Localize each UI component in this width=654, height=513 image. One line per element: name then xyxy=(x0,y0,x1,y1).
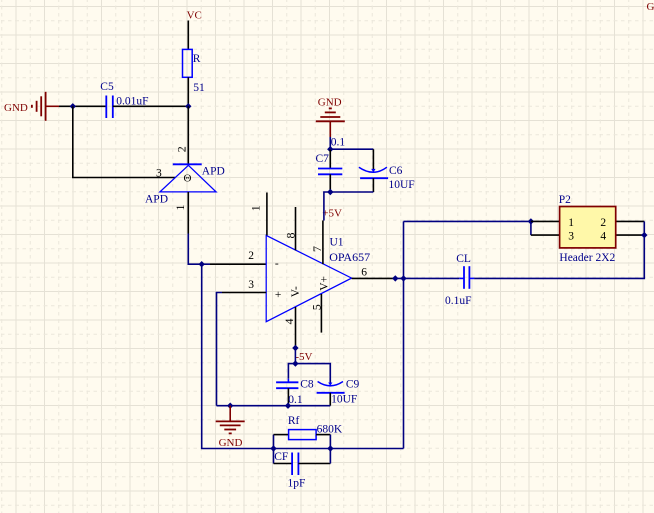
svg-text:P2: P2 xyxy=(559,194,571,206)
wire feedback left leg xyxy=(202,264,404,448)
svg-text:1: 1 xyxy=(568,217,574,229)
capacitor C7 xyxy=(318,149,342,192)
wire +5V to pin 7 xyxy=(324,192,330,221)
junction P2 pins 1-3 xyxy=(528,218,534,224)
svg-text:3: 3 xyxy=(156,168,162,180)
svg-text:GND: GND xyxy=(219,437,243,449)
svg-text:Θ: Θ xyxy=(184,173,192,185)
resistor Rf xyxy=(274,430,331,449)
ground GND bottom xyxy=(216,406,245,449)
resistor R xyxy=(183,49,193,77)
value 1pF xyxy=(288,477,306,489)
capacitor CF xyxy=(274,449,331,476)
pin 2 label U1 xyxy=(248,250,254,262)
svg-text:C5: C5 xyxy=(100,81,114,93)
pin 1 label APD xyxy=(173,205,187,211)
wire P2 pin2 to pin4 tie xyxy=(643,221,645,235)
power port +5V xyxy=(322,208,342,220)
label C9 xyxy=(346,379,360,391)
svg-text:Rf: Rf xyxy=(288,415,300,427)
svg-text:0.1uF: 0.1uF xyxy=(445,295,472,307)
capacitor C5 xyxy=(106,96,113,119)
svg-text:G: G xyxy=(647,1,654,13)
junction node B xyxy=(185,103,191,109)
svg-text:R: R xyxy=(193,53,201,65)
photodiode APD xyxy=(160,164,216,192)
svg-text:U1: U1 xyxy=(330,236,344,248)
svg-text:V-: V- xyxy=(290,286,302,297)
label Rf xyxy=(288,415,300,427)
svg-text:Header 2X2: Header 2X2 xyxy=(559,252,615,264)
power port VC xyxy=(187,9,202,21)
junction Rf left xyxy=(270,445,276,451)
value 0.1uF (CL) xyxy=(445,295,472,307)
capacitor CL xyxy=(459,266,474,289)
svg-text:+5V: +5V xyxy=(322,208,342,220)
wire output to CL xyxy=(395,277,459,279)
wire P2 pin1 to pin3 tie xyxy=(530,221,532,235)
junction Rf right xyxy=(327,445,333,451)
svg-text:6: 6 xyxy=(361,267,367,279)
label C6 xyxy=(389,165,403,177)
pin 2 label APD xyxy=(174,146,188,152)
power port G top right xyxy=(647,1,654,13)
svg-text:680K: 680K xyxy=(317,423,343,435)
svg-text:7: 7 xyxy=(310,246,324,252)
svg-text:2: 2 xyxy=(248,250,254,262)
wire GND to +5V rail xyxy=(329,137,331,149)
wire C5 to node B xyxy=(113,105,189,107)
svg-text:OPA657: OPA657 xyxy=(329,250,370,264)
label OPA657 xyxy=(329,250,370,264)
wire APD anode down xyxy=(187,192,189,234)
junction node A xyxy=(70,103,76,109)
label CL xyxy=(456,253,471,265)
junction feedback tap xyxy=(199,261,205,267)
svg-text:APD: APD xyxy=(145,193,168,205)
svg-text:-: - xyxy=(275,258,279,270)
svg-text:10UF: 10UF xyxy=(389,179,415,191)
svg-text:3: 3 xyxy=(248,279,254,291)
svg-text:10UF: 10UF xyxy=(331,393,357,405)
wire C6 bottom rail xyxy=(330,191,373,193)
ground GND left xyxy=(4,92,59,121)
label APD left xyxy=(145,193,168,205)
svg-text:C7: C7 xyxy=(316,153,330,165)
svg-text:0.1: 0.1 xyxy=(331,136,346,148)
svg-text:1: 1 xyxy=(173,205,187,211)
pin 3 label APD xyxy=(156,168,162,180)
svg-text:1pF: 1pF xyxy=(288,477,306,489)
wire node A to APD pin 3 xyxy=(73,106,175,177)
svg-text:VC: VC xyxy=(187,9,202,21)
junction +5V rail xyxy=(327,189,333,195)
power port -5V xyxy=(292,345,312,363)
svg-text:2: 2 xyxy=(600,217,606,229)
svg-text:0.1: 0.1 xyxy=(288,394,303,406)
junction P2 pins 2-4 xyxy=(641,232,647,238)
wire R to node B xyxy=(187,77,189,106)
junction output 2 xyxy=(400,275,406,281)
svg-text:CL: CL xyxy=(456,253,471,265)
svg-text:C6: C6 xyxy=(389,165,403,177)
value 10UF (C6) xyxy=(389,179,415,191)
junction C7 top xyxy=(327,146,333,152)
junction bypass top xyxy=(292,360,298,366)
label P2 xyxy=(559,194,571,206)
pin 3 label U1 xyxy=(248,279,254,291)
svg-text:C8: C8 xyxy=(300,379,314,391)
svg-text:51: 51 xyxy=(193,82,205,94)
label C7 xyxy=(316,153,330,165)
wire output vertical to feedback xyxy=(403,221,405,448)
svg-text:CF: CF xyxy=(274,451,288,463)
svg-text:3: 3 xyxy=(568,230,574,242)
ground GND top xyxy=(316,97,345,138)
svg-text:4: 4 xyxy=(282,319,296,325)
wire GND to node A xyxy=(59,105,106,107)
svg-text:C9: C9 xyxy=(346,379,360,391)
wire rail to C6 xyxy=(330,148,373,150)
label U1 xyxy=(330,236,344,248)
svg-text:1: 1 xyxy=(248,205,262,211)
svg-text:GND: GND xyxy=(318,97,342,109)
value 680K xyxy=(317,423,343,435)
svg-text:V+: V+ xyxy=(318,276,330,291)
pin 2 lead U1 xyxy=(210,263,266,265)
wire node B to APD cathode xyxy=(187,106,189,164)
capacitor C8 xyxy=(276,379,298,406)
label R xyxy=(193,53,201,65)
svg-text:+: + xyxy=(275,289,282,301)
value 0.01uF xyxy=(116,95,148,107)
pin 1 U1 xyxy=(248,193,267,236)
svg-text:APD: APD xyxy=(202,166,225,178)
label C8 xyxy=(300,379,314,391)
label CF xyxy=(274,451,288,463)
wire bypass bottom rail xyxy=(217,405,331,407)
wire output node to P2 left xyxy=(404,220,531,222)
label Header 2X2 xyxy=(559,252,615,264)
svg-text:8: 8 xyxy=(283,233,297,239)
label C5 xyxy=(100,81,114,93)
op-amp U1 xyxy=(266,235,351,321)
svg-text:2: 2 xyxy=(174,146,188,152)
wire VC to R xyxy=(187,21,189,50)
svg-text:5: 5 xyxy=(309,304,323,310)
pin 6 U1 output xyxy=(352,267,396,279)
junction C8 bottom xyxy=(285,403,291,409)
capacitor C9 polarized xyxy=(317,382,345,406)
pin 4 U1 xyxy=(282,307,296,348)
wire -5V to bypass rail xyxy=(294,348,296,364)
junction ground tap xyxy=(227,403,233,409)
label APD right xyxy=(202,166,225,178)
value 51 xyxy=(193,82,205,94)
connector P2 Header 2X2 xyxy=(531,207,644,248)
value 0.1 (C7) xyxy=(331,136,346,148)
pin 7 U1 xyxy=(310,221,324,265)
svg-text:4: 4 xyxy=(600,230,606,242)
value 10UF (C9) xyxy=(331,393,357,405)
wire pin3 to ground rail xyxy=(217,293,223,406)
junction output 1 xyxy=(392,275,398,281)
capacitor C6 polarized xyxy=(359,149,388,192)
pin 3 lead U1 xyxy=(222,292,266,294)
pin 8 U1 xyxy=(283,207,297,250)
value 0.1 (C8) xyxy=(288,394,303,406)
wire to opamp pin 2 xyxy=(188,234,210,265)
wire bypass top rail xyxy=(288,364,330,383)
svg-text:-5V: -5V xyxy=(295,351,312,363)
svg-text:GND: GND xyxy=(4,102,28,114)
pin 5 U1 xyxy=(309,294,323,333)
wire CL to P2 right leg xyxy=(474,235,644,278)
